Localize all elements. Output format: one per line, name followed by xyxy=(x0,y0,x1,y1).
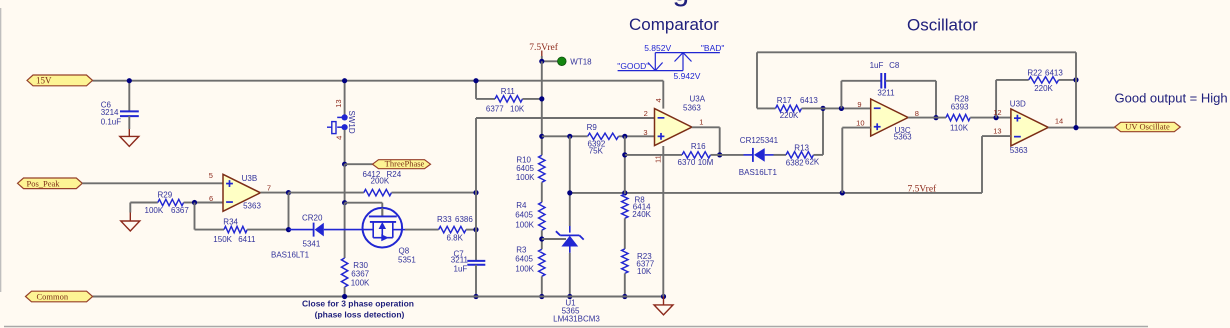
wire R10-R4 xyxy=(541,182,543,202)
svg-text:5.852V: 5.852V xyxy=(644,43,671,53)
title partial g xyxy=(673,0,690,8)
port ThreePhase xyxy=(373,159,431,169)
capacitor C8 xyxy=(841,61,936,98)
resistor R11 xyxy=(476,87,542,114)
junction zener common xyxy=(567,294,572,299)
svg-text:Comparator: Comparator xyxy=(629,15,719,34)
svg-text:13: 13 xyxy=(334,99,343,107)
svg-text:Pos_Peak: Pos_Peak xyxy=(27,178,61,188)
svg-text:1uF: 1uF xyxy=(870,61,884,70)
svg-text:6405: 6405 xyxy=(516,164,534,173)
resistor R16 xyxy=(678,142,720,167)
svg-text:BAS16LT1: BAS16LT1 xyxy=(271,250,310,259)
svg-text:12: 12 xyxy=(993,108,1001,117)
op-amp U3D xyxy=(993,100,1063,156)
resistor R23 xyxy=(622,249,655,276)
svg-text:R17: R17 xyxy=(777,96,792,105)
wire U3A pin4 xyxy=(654,81,664,109)
svg-text:5363: 5363 xyxy=(683,103,701,112)
net tie WT18 xyxy=(558,57,593,67)
svg-text:110K: 110K xyxy=(950,124,969,133)
svg-text:CR20: CR20 xyxy=(302,214,323,223)
ground common xyxy=(654,297,673,315)
svg-text:220K: 220K xyxy=(780,111,799,120)
svg-text:R3: R3 xyxy=(516,246,527,255)
svg-text:10: 10 xyxy=(856,118,864,127)
svg-text:Oscillator: Oscillator xyxy=(907,16,978,35)
wire C7 to common xyxy=(475,265,477,297)
svg-text:R29: R29 xyxy=(158,191,173,200)
wire C8 left leg xyxy=(840,81,842,109)
junction C8 left xyxy=(839,106,844,111)
junction REF xyxy=(539,236,544,241)
svg-text:7.5Vref: 7.5Vref xyxy=(908,183,938,194)
junction 15V column xyxy=(473,78,478,83)
junction R24 column xyxy=(473,190,478,195)
svg-text:10K: 10K xyxy=(510,105,525,114)
resistor R13 xyxy=(774,144,824,168)
junction R22 right xyxy=(1073,77,1078,82)
wire pin3 row left xyxy=(542,135,588,137)
wire zener column upper xyxy=(569,136,571,226)
svg-text:R13: R13 xyxy=(794,144,809,153)
junction pin3-542 xyxy=(539,134,544,139)
svg-text:R33: R33 xyxy=(437,215,452,224)
wire pin9 row xyxy=(823,107,871,109)
wire pin6 row xyxy=(195,202,224,204)
svg-text:Q8: Q8 xyxy=(399,247,410,256)
junction R16-colC xyxy=(622,152,627,157)
transistor Q8 xyxy=(363,208,417,265)
svg-text:"GOOD": "GOOD" xyxy=(617,61,649,71)
wire R24 to column xyxy=(392,192,477,194)
junction R33 column xyxy=(473,227,478,232)
junction R9 right xyxy=(622,134,627,139)
svg-text:1uF: 1uF xyxy=(454,265,468,274)
svg-text:1: 1 xyxy=(699,118,703,127)
junction R13-R17 xyxy=(820,106,825,111)
wire WT18 branch xyxy=(542,60,558,62)
junction C7 common xyxy=(473,294,478,299)
resistor R17 xyxy=(757,96,823,120)
svg-text:10K: 10K xyxy=(637,267,652,276)
wire R3 to common xyxy=(541,276,543,296)
port UV Oscillate xyxy=(1115,122,1181,132)
svg-text:BAS16LT1: BAS16LT1 xyxy=(739,168,778,177)
wire pin5 row xyxy=(82,182,223,184)
wire common rail xyxy=(93,296,664,298)
svg-text:ThreePhase: ThreePhase xyxy=(385,159,425,169)
wire pin2 row xyxy=(476,117,655,119)
junction drain row xyxy=(342,200,347,205)
svg-text:3211: 3211 xyxy=(877,88,895,97)
junction R9 left xyxy=(567,134,572,139)
wire 15V rail xyxy=(93,80,664,82)
wire pin3 row right xyxy=(619,135,655,137)
svg-text:5363: 5363 xyxy=(1010,146,1028,155)
resistor R34 xyxy=(195,218,289,245)
wire gate column lower xyxy=(344,203,346,258)
wire REF row xyxy=(542,238,566,240)
svg-text:5.942V: 5.942V xyxy=(674,71,701,81)
wire to ThreePhase port xyxy=(345,163,373,165)
svg-text:2: 2 xyxy=(644,109,648,118)
wire R8-R23 xyxy=(624,218,626,249)
resistor R3 xyxy=(515,246,545,277)
port Common xyxy=(26,291,93,302)
net label 7.5Vref top xyxy=(529,42,559,56)
svg-text:6411: 6411 xyxy=(238,235,256,244)
wire 15V to R11 corner xyxy=(475,81,477,99)
wire drain row xyxy=(345,203,383,217)
junction R23 common xyxy=(622,294,627,299)
op-amp U3C xyxy=(856,99,919,142)
svg-text:6393: 6393 xyxy=(951,102,969,111)
svg-text:6367: 6367 xyxy=(171,206,189,215)
capacitor C7 xyxy=(451,249,486,273)
svg-text:6: 6 xyxy=(209,194,213,203)
wire R30 to common xyxy=(344,287,346,297)
wire 7.5Vref column top xyxy=(541,56,543,61)
svg-text:62K: 62K xyxy=(805,157,820,166)
svg-text:6367: 6367 xyxy=(351,269,369,278)
title Comparator xyxy=(629,15,719,34)
junction U3C out xyxy=(933,115,938,120)
svg-text:14: 14 xyxy=(1055,116,1063,125)
svg-text:0.1uF: 0.1uF xyxy=(101,118,122,127)
svg-text:100K: 100K xyxy=(515,221,534,230)
junction pin6 xyxy=(192,200,197,205)
border left xyxy=(0,8,2,292)
title Oscillator xyxy=(907,16,978,35)
svg-text:g: g xyxy=(673,0,690,8)
annotation close for 3 phase xyxy=(302,299,414,320)
svg-text:R16: R16 xyxy=(691,142,706,151)
resistor R9 xyxy=(587,123,619,155)
svg-text:5: 5 xyxy=(209,171,213,180)
svg-text:SW1D: SW1D xyxy=(347,111,356,134)
wire column C xyxy=(624,136,626,194)
svg-text:100K: 100K xyxy=(516,173,535,182)
switch SW1D xyxy=(327,99,356,139)
svg-text:Close for 3 phase operation: Close for 3 phase operation xyxy=(302,299,414,309)
wire top feedback rail xyxy=(757,52,1076,108)
svg-text:75K: 75K xyxy=(589,146,604,155)
annotation Good output xyxy=(1115,90,1228,105)
svg-text:100K: 100K xyxy=(145,206,164,215)
annotation hysteresis xyxy=(617,43,724,81)
wire output column xyxy=(1075,52,1077,127)
svg-text:6382: 6382 xyxy=(786,158,804,167)
resistor R30 xyxy=(341,258,370,287)
wire column 476 xyxy=(475,118,477,261)
svg-text:100K: 100K xyxy=(351,278,370,287)
svg-text:WT18: WT18 xyxy=(570,58,592,67)
wire C6 branch xyxy=(128,81,130,111)
wire U3C out row xyxy=(908,117,946,119)
svg-text:3211: 3211 xyxy=(451,256,469,265)
svg-text:5351: 5351 xyxy=(398,256,416,265)
wire R13 up xyxy=(822,108,824,154)
wire 7.5Vref rail xyxy=(570,192,982,194)
wire zener to common xyxy=(569,253,571,297)
diode CR12 xyxy=(739,136,779,177)
resistor R10 xyxy=(516,155,545,182)
svg-text:11: 11 xyxy=(654,155,663,163)
zener U1 xyxy=(553,226,600,324)
svg-text:10M: 10M xyxy=(698,158,714,167)
svg-text:C8: C8 xyxy=(889,61,900,70)
wire R4-R3 xyxy=(541,230,543,249)
svg-text:220K: 220K xyxy=(1034,84,1053,93)
svg-text:5341: 5341 xyxy=(303,239,321,248)
wire R16 to CR12 xyxy=(720,154,744,156)
svg-text:4: 4 xyxy=(335,136,344,140)
svg-text:6386: 6386 xyxy=(455,215,473,224)
junction R11-542 xyxy=(539,96,544,101)
junction rail-colB xyxy=(567,190,572,195)
resistor R8 xyxy=(622,194,652,219)
wire U3B out to feedback xyxy=(288,193,290,230)
junction R22 branch xyxy=(994,115,999,120)
svg-text:"BAD": "BAD" xyxy=(701,43,725,53)
capacitor C6 xyxy=(101,100,139,129)
junction R30 common xyxy=(342,294,347,299)
wire SW1D to drain row xyxy=(344,164,346,203)
svg-text:Common: Common xyxy=(37,292,69,302)
svg-text:5363: 5363 xyxy=(894,133,912,142)
junction rail-pin10 xyxy=(840,190,845,195)
svg-text:200K: 200K xyxy=(371,176,390,185)
svg-text:LM431BCM3: LM431BCM3 xyxy=(553,315,600,324)
wire R16 lead xyxy=(625,154,682,156)
svg-text:15V: 15V xyxy=(36,76,52,86)
junction U3B out xyxy=(286,190,291,195)
svg-text:6370: 6370 xyxy=(678,158,696,167)
junction 15V-SW1D xyxy=(342,78,347,83)
wire column 542 upper xyxy=(541,61,543,155)
svg-text:150K: 150K xyxy=(213,235,232,244)
net label 7.5Vref rail xyxy=(908,183,938,194)
junction WT18 xyxy=(539,59,544,64)
svg-text:U3B: U3B xyxy=(242,174,258,183)
ground C6 xyxy=(120,129,139,146)
svg-text:9: 9 xyxy=(857,100,861,109)
wire output row xyxy=(289,192,364,194)
svg-text:U3A: U3A xyxy=(690,95,706,104)
svg-text:4: 4 xyxy=(654,98,663,102)
resistor R22 xyxy=(996,68,1076,93)
junction rail-colC xyxy=(622,190,627,195)
wire R22 branch xyxy=(995,80,997,118)
wire U3A output xyxy=(692,127,720,155)
svg-text:7: 7 xyxy=(267,184,271,193)
wire pin13 row xyxy=(982,136,1011,193)
resistor R29 xyxy=(130,191,194,215)
svg-text:7.5Vref: 7.5Vref xyxy=(529,42,559,53)
svg-text:UV Oscillate: UV Oscillate xyxy=(1125,122,1170,132)
svg-text:6.8K: 6.8K xyxy=(447,234,464,243)
resistor R24 xyxy=(363,170,402,196)
wire U3A pin11 xyxy=(654,146,664,297)
junction R16 right xyxy=(717,152,722,157)
junction ThreePhase xyxy=(342,162,347,167)
svg-text:6413: 6413 xyxy=(1045,68,1063,77)
junction U3D out xyxy=(1073,125,1078,130)
svg-text:CR125341: CR125341 xyxy=(740,136,779,145)
svg-text:R11: R11 xyxy=(501,87,516,96)
svg-text:R22: R22 xyxy=(1027,68,1042,77)
svg-text:3: 3 xyxy=(643,128,647,137)
port 15V xyxy=(27,75,93,86)
svg-text:5363: 5363 xyxy=(243,202,261,211)
svg-text:R9: R9 xyxy=(587,123,598,132)
wire pin6 to R34 xyxy=(194,203,196,230)
op-amp U3A xyxy=(643,95,705,146)
svg-text:6413: 6413 xyxy=(800,96,818,105)
svg-text:6377: 6377 xyxy=(486,105,504,114)
svg-text:U3D: U3D xyxy=(1010,100,1026,109)
junction 542 common xyxy=(539,294,544,299)
svg-text:(phase loss detection): (phase loss detection) xyxy=(315,310,405,320)
resistor R28 xyxy=(946,94,1011,132)
svg-text:R4: R4 xyxy=(516,201,527,210)
wire R23 to common xyxy=(624,273,626,296)
svg-text:R34: R34 xyxy=(223,218,238,227)
wire SW1D upper xyxy=(344,81,346,115)
op-amp U3B xyxy=(209,171,271,211)
ground R29 xyxy=(121,213,140,232)
border bottom xyxy=(4,326,1148,328)
port Pos_Peak xyxy=(18,178,83,189)
wire U3B output xyxy=(260,192,288,194)
svg-text:Good output = High: Good output = High xyxy=(1115,90,1228,105)
svg-text:6405: 6405 xyxy=(515,210,533,219)
diode CR20 xyxy=(271,214,373,260)
resistor R4 xyxy=(515,201,545,230)
wire R29 gnd lead xyxy=(129,203,131,213)
wire pin10 row xyxy=(842,128,870,193)
junction common end xyxy=(661,294,666,299)
svg-text:6405: 6405 xyxy=(515,255,533,264)
junction feedback xyxy=(286,227,291,232)
junction 15V-C6 xyxy=(127,78,132,83)
wire U3D output xyxy=(1048,127,1114,129)
wire C8 right leg xyxy=(935,81,937,118)
resistor R33 xyxy=(405,215,476,243)
svg-text:13: 13 xyxy=(993,126,1001,135)
svg-text:100K: 100K xyxy=(515,265,534,274)
wire SW1D lower xyxy=(344,130,346,164)
svg-text:240K: 240K xyxy=(632,210,651,219)
svg-text:3214: 3214 xyxy=(101,108,119,117)
